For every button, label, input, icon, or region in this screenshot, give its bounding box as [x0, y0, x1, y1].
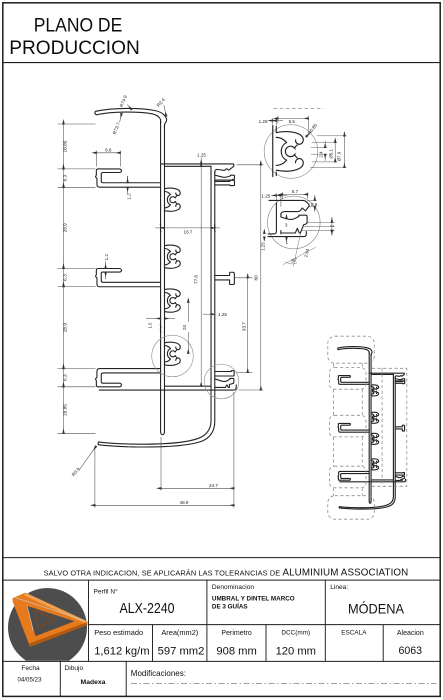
svg-text:Area(mm2): Area(mm2) — [161, 628, 198, 637]
glazing bulb fin — [215, 175, 235, 180]
svg-text:Ø7.9: Ø7.9 — [336, 151, 341, 161]
dashed connectors — [333, 363, 362, 495]
svg-text:Modificaciones:: Modificaciones: — [131, 669, 186, 678]
mid T-fin — [215, 272, 235, 284]
svg-text:80: 80 — [253, 275, 258, 281]
svg-text:Linea:: Linea: — [330, 584, 348, 591]
svg-text:R2.4: R2.4 — [156, 97, 167, 108]
svg-text:6.3: 6.3 — [63, 374, 69, 381]
bottom membrane — [164, 385, 211, 387]
detail 2 angle leaders — [283, 247, 316, 265]
small profile view (scaled copy) — [338, 347, 406, 510]
svg-text:1.25: 1.25 — [259, 119, 268, 124]
svg-text:2: 2 — [330, 224, 335, 227]
dashed outline hook 1 — [329, 368, 366, 390]
svg-text:R0.9: R0.9 — [71, 466, 82, 477]
svg-text:DE 3 GUÍAS: DE 3 GUÍAS — [212, 602, 248, 611]
svg-text:48.9: 48.9 — [180, 500, 189, 505]
svg-text:PLANO DE: PLANO DE — [34, 15, 123, 37]
dashed gasket outline: top arc — [328, 336, 375, 363]
svg-text:Aleacion: Aleacion — [397, 630, 424, 637]
title block texts — [17, 584, 423, 686]
svg-text:ESCALA: ESCALA — [341, 630, 367, 637]
svg-text:ALX-2240: ALX-2240 — [120, 601, 175, 617]
small T-fin — [215, 180, 235, 185]
bottom hook fin — [215, 371, 234, 376]
svg-text:Fecha: Fecha — [21, 665, 40, 672]
dashed sash rectangle — [372, 368, 407, 486]
svg-text:1.25: 1.25 — [261, 193, 270, 198]
svg-text:1: 1 — [286, 240, 289, 245]
omega boss 4 — [164, 342, 180, 365]
svg-text:0.9: 0.9 — [311, 202, 318, 207]
detail circle A on omega 4 — [152, 335, 194, 377]
svg-text:28.9: 28.9 — [63, 223, 69, 233]
svg-text:1.2: 1.2 — [126, 193, 131, 200]
detail view 1: circle — [264, 125, 318, 179]
svg-text:Perfil N°: Perfil N° — [94, 588, 119, 596]
svg-text:1.25: 1.25 — [197, 152, 206, 157]
left dimension chain — [58, 123, 96, 125]
svg-text:1.25: 1.25 — [218, 312, 227, 317]
svg-text:33.7: 33.7 — [242, 322, 247, 331]
dim 77.8 — [200, 166, 202, 386]
profile top arc — [96, 108, 166, 128]
svg-text:24.7: 24.7 — [209, 483, 218, 488]
svg-text:1.2: 1.2 — [104, 254, 109, 261]
svg-text:PRODUCCION: PRODUCCION — [9, 37, 140, 59]
logo orange triangle — [13, 593, 88, 647]
top flange — [161, 164, 234, 173]
svg-text:1.25: 1.25 — [260, 242, 265, 251]
detail view 1: dashed cut line — [274, 107, 324, 109]
dim 1.25 web — [203, 313, 211, 315]
dim 1.6 wall — [146, 318, 161, 320]
svg-text:04/05/23: 04/05/23 — [17, 676, 42, 683]
detail view 2: circle — [268, 196, 321, 249]
svg-text:1,612 kg/m: 1,612 kg/m — [94, 645, 149, 657]
omega boss 1 — [164, 188, 180, 211]
dim 24.7 — [160, 437, 162, 491]
svg-text:R74.9: R74.9 — [119, 94, 128, 108]
svg-text:3: 3 — [285, 223, 288, 228]
web break squiggle — [213, 224, 216, 233]
svg-text:Perimetro: Perimetro — [221, 630, 251, 637]
dashed outline hook 2 — [329, 415, 366, 437]
svg-text:Dibujo: Dibujo — [65, 665, 84, 672]
J-hook 3 (mirrored) — [95, 369, 160, 387]
detail view 1: wall section — [273, 126, 304, 177]
MAIN PROFILE VIEW — [95, 108, 236, 447]
detail 2: web section — [268, 203, 276, 234]
detail 1 dims — [272, 118, 274, 124]
detail 2: Z channel w/ tooth — [281, 215, 307, 233]
omega boss 3 — [164, 289, 180, 312]
detail 2: bottom membrane — [268, 232, 306, 237]
svg-text:597 mm2: 597 mm2 — [158, 645, 205, 657]
svg-text:908 mm: 908 mm — [216, 645, 256, 657]
svg-text:6.3: 6.3 — [63, 274, 69, 281]
dim 6.6 hook1 — [95, 151, 97, 167]
svg-text:18.85: 18.85 — [63, 140, 69, 152]
title separator line — [3, 62, 440, 64]
dashed outline hook 3 — [329, 466, 366, 488]
modifications dash-dot line — [131, 682, 437, 684]
bottom Z-channel — [215, 378, 234, 387]
dim 48.9 — [94, 448, 96, 508]
dim 16.7 — [155, 227, 164, 229]
svg-text:R73.7: R73.7 — [112, 121, 121, 135]
svg-text:DCC(mm): DCC(mm) — [281, 630, 310, 637]
J-hook 2 — [95, 269, 160, 287]
svg-text:2: 2 — [330, 228, 335, 231]
dim 20 omegas — [187, 302, 189, 322]
svg-text:6063: 6063 — [399, 645, 423, 657]
svg-text:Peso estimado: Peso estimado — [94, 628, 143, 637]
svg-text:30°: 30° — [290, 257, 298, 264]
svg-text:SALVO OTRA INDICACION, SE: SALVO OTRA INDICACION, SE APLICARÁN LAS … — [44, 568, 409, 579]
left wall — [161, 121, 165, 435]
svg-text:16.7: 16.7 — [184, 229, 193, 234]
svg-text:2.94: 2.94 — [303, 248, 310, 258]
dim 80 — [237, 164, 264, 166]
title block frame lines — [3, 558, 440, 697]
svg-text:18.85: 18.85 — [63, 404, 69, 416]
svg-text:2.4: 2.4 — [318, 151, 323, 158]
svg-text:6.3: 6.3 — [63, 174, 69, 181]
svg-text:5.7: 5.7 — [292, 189, 299, 194]
dim 1.2 hook2 — [105, 261, 107, 268]
logo — [8, 588, 88, 667]
dim 33.7 — [235, 277, 253, 279]
svg-text:120 mm: 120 mm — [276, 645, 316, 657]
svg-text:MÓDENA: MÓDENA — [348, 601, 405, 617]
dashed outline bottom arc — [328, 496, 375, 520]
dim 1.2 hook1 fin — [127, 176, 129, 183]
svg-text:Denominacion: Denominacion — [212, 584, 254, 591]
svg-text:Madexa: Madexa — [81, 679, 106, 686]
detail circle B on bottom hook — [204, 364, 239, 399]
detail 2 dims — [282, 192, 284, 199]
omega boss 2 — [164, 245, 180, 268]
J-hook 1 — [95, 169, 160, 187]
svg-text:6.5: 6.5 — [289, 119, 296, 124]
detail 2: top fin with beak — [269, 200, 309, 214]
svg-text:Ø5.1: Ø5.1 — [328, 148, 333, 158]
svg-text:UMBRAL Y DINTEL MARCO: UMBRAL Y DINTEL MARCO — [212, 596, 295, 603]
svg-text:20: 20 — [182, 325, 187, 331]
web — [99, 166, 211, 444]
svg-text:77.8: 77.8 — [193, 275, 198, 284]
wall break squiggles — [159, 224, 162, 233]
detail view 1: enlarged omega — [276, 132, 303, 172]
svg-text:6.6: 6.6 — [105, 147, 112, 152]
svg-text:28.9: 28.9 — [63, 323, 69, 333]
svg-text:1.6: 1.6 — [148, 322, 153, 328]
